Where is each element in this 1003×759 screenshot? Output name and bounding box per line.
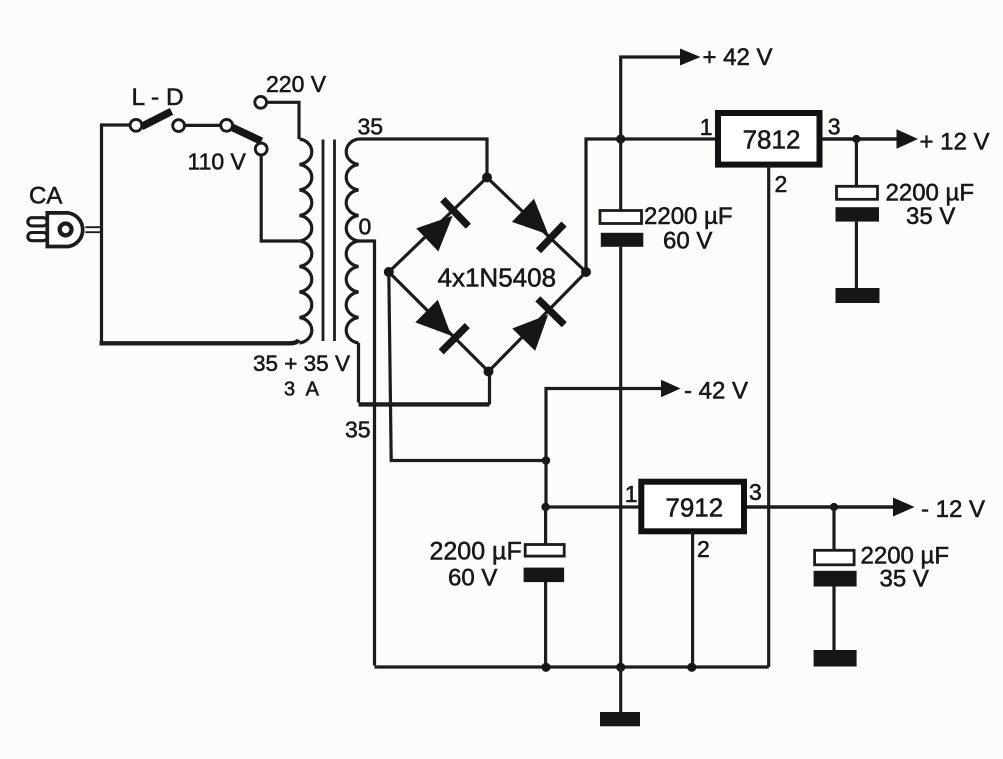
switch S1 blade to 110 V [232, 127, 262, 141]
svg-text:0: 0 [359, 214, 372, 240]
svg-text:35: 35 [345, 417, 371, 443]
wire secondary bottom horizontal [359, 402, 490, 406]
svg-text:7912: 7912 [665, 493, 723, 523]
transformer T1 core [323, 140, 335, 342]
svg-text:+ 12 V: + 12 V [920, 129, 990, 156]
transformer T1 primary winding [300, 139, 312, 343]
svg-text:+ 42 V: + 42 V [703, 44, 773, 71]
junction negative rail at -42 branch [542, 456, 550, 464]
wire 110 V terminal to primary tap [261, 155, 299, 241]
wire +42 V branch [621, 57, 682, 139]
wire ground bus [375, 665, 769, 668]
node 220 V terminal [255, 96, 267, 108]
wire stub to bridge bottom vertex [488, 372, 491, 405]
wire 7812 output [823, 137, 898, 141]
junction bridge top vertex [482, 173, 492, 183]
capacitor C4 negative plate [814, 571, 857, 587]
node 110 V terminal [255, 143, 267, 155]
svg-text:2: 2 [697, 536, 710, 562]
capacitor C2 2200uF 35V lead [855, 139, 858, 186]
svg-text:- 12 V: - 12 V [921, 496, 985, 523]
arrow + 12 V [897, 129, 919, 148]
junction ground bus at 7912 pin 2 [687, 663, 696, 672]
svg-text:4x1N5408: 4x1N5408 [438, 263, 557, 293]
capacitor C3 positive plate [525, 545, 564, 557]
capacitor C3 negative plate [524, 568, 565, 583]
svg-text:110 V: 110 V [188, 149, 247, 175]
wire 7912 pin 2 to ground bus [691, 531, 694, 667]
wire 7912 input [546, 505, 641, 508]
wire C2 to ground [855, 222, 858, 288]
svg-text:60 V: 60 V [448, 565, 497, 592]
ground at C4 [814, 650, 857, 667]
svg-text:3 A: 3 A [284, 379, 322, 401]
diode D4 bridge bottom-right [510, 296, 566, 352]
capacitor C1 2200uF 60V lead [619, 139, 622, 211]
svg-text:60 V: 60 V [663, 228, 712, 255]
svg-text:1: 1 [700, 114, 713, 140]
wire 7812 pin 2 to ground bus [767, 165, 770, 667]
capacitor C1 negative plate [601, 233, 644, 247]
wire secondary top to bridge AC1 [359, 139, 488, 173]
svg-text:35 V: 35 V [906, 203, 955, 230]
junction ground bus at C1 [616, 663, 625, 672]
wire primary bottom return [100, 340, 299, 344]
capacitor C1 positive plate [600, 211, 642, 224]
ground at C2 [836, 288, 880, 303]
svg-text:L - D: L - D [132, 84, 184, 111]
junction negative rail at 7912 input [541, 503, 549, 511]
wire bridge diamond [389, 178, 586, 372]
svg-text:7812: 7812 [743, 125, 801, 155]
svg-text:2: 2 [775, 171, 788, 197]
switch S1 blade (open) [142, 111, 172, 126]
junction +12 V output at C2 [852, 135, 860, 143]
arrow -42 V [661, 380, 681, 398]
junction ground bus at C3 [541, 663, 550, 672]
wire negative rail from bridge left vertex [389, 272, 546, 461]
wire 7912 output [747, 505, 895, 509]
transformer T1 secondary winding [346, 139, 358, 343]
wire positive rail bridge to 7812 pin 1 [586, 139, 716, 272]
junction -12 V output at C4 [830, 503, 838, 511]
wire 220 V terminal to primary top [267, 102, 299, 139]
diode D3 bridge bottom-left [413, 298, 469, 354]
arrow +42 V [680, 49, 701, 66]
svg-text:35 V: 35 V [880, 566, 929, 593]
svg-text:220 V: 220 V [266, 71, 327, 97]
switch S1 contact c [221, 119, 233, 131]
svg-text:35 + 35 V: 35 + 35 V [253, 351, 350, 376]
regulator U1 7812 [718, 113, 820, 165]
wire ground stub [619, 667, 622, 712]
wire negative rail down to 7912 [544, 461, 547, 508]
ground main [600, 712, 640, 726]
arrow - 12 V [893, 498, 915, 517]
svg-text:CA: CA [29, 183, 62, 210]
capacitor C3 2200uF 60V lead [544, 507, 547, 545]
capacitor C2 positive plate [837, 186, 878, 199]
capacitor C4 positive plate [815, 550, 855, 565]
capacitor C2 negative plate [836, 207, 880, 221]
wire C3 to ground bus [544, 582, 547, 667]
wire C4 to ground [832, 587, 835, 651]
regulator U2 7912 [641, 482, 744, 532]
capacitor C4 2200uF 35V lead [832, 507, 835, 550]
junction positive rail at C1 [616, 134, 625, 143]
svg-text:3: 3 [749, 479, 762, 505]
wire mains left loop [102, 125, 132, 344]
diode D1 bridge top-left [415, 197, 471, 253]
AC plug CA [28, 213, 83, 247]
switch S1 contact b [173, 120, 185, 132]
wire between switch contacts [185, 124, 221, 127]
svg-text:35: 35 [358, 114, 384, 140]
wire plug cord [85, 227, 101, 232]
svg-text:2200 µF: 2200 µF [644, 203, 733, 230]
svg-text:2200 µF: 2200 µF [430, 538, 522, 566]
wire -42 V branch [546, 389, 663, 461]
switch S1 common contact [130, 119, 142, 131]
junction bridge left vertex [384, 267, 394, 277]
junction bridge right vertex [581, 267, 591, 277]
svg-text:- 42 V: - 42 V [684, 378, 748, 405]
svg-text:3: 3 [828, 114, 841, 140]
svg-text:1: 1 [625, 481, 638, 507]
wire C1 to ground bus [619, 247, 622, 666]
diode D2 bridge top-right [510, 197, 566, 253]
wire center tap to ground bus [358, 241, 375, 666]
junction bridge bottom vertex [484, 367, 494, 377]
wire secondary bottom to bridge AC2 [357, 343, 360, 403]
